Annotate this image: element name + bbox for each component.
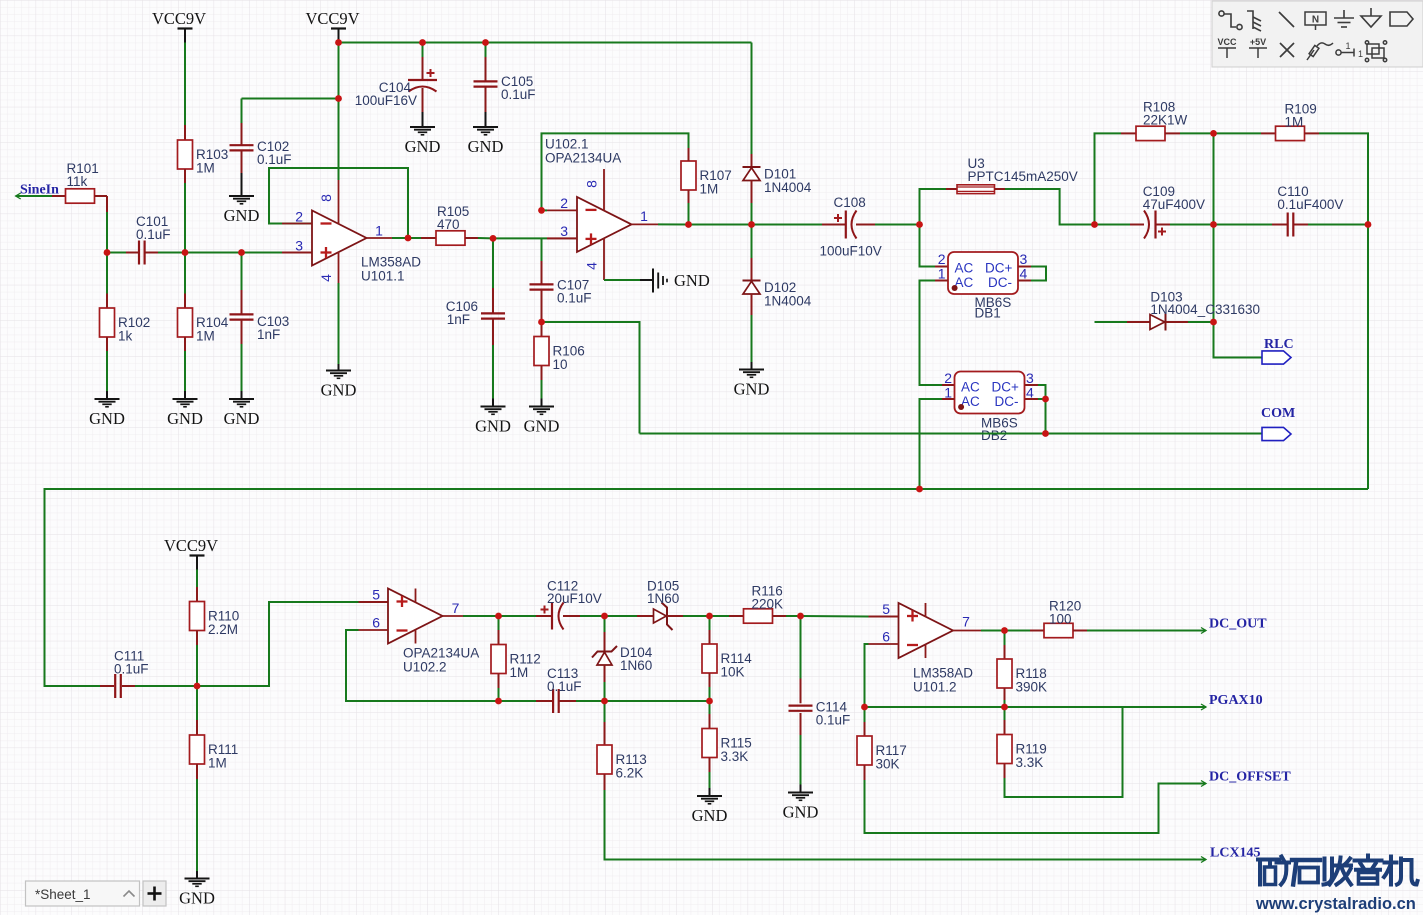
wire bbox=[1188, 321, 1214, 323]
capacitor C107 bbox=[530, 284, 554, 289]
label C113 bbox=[547, 666, 582, 694]
svg-text:6.2K: 6.2K bbox=[616, 766, 644, 781]
svg-text:C108: C108 bbox=[834, 195, 866, 210]
svg-text:U101.2: U101.2 bbox=[913, 680, 957, 695]
wire bbox=[158, 252, 185, 254]
svg-text:PGAX10: PGAX10 bbox=[1209, 693, 1263, 708]
wire bbox=[241, 173, 243, 196]
resistor R115 bbox=[702, 729, 752, 765]
wire bbox=[709, 758, 711, 773]
wire bbox=[100, 685, 114, 687]
svg-text:GND: GND bbox=[475, 417, 511, 436]
svg-text:47uF400V: 47uF400V bbox=[1143, 197, 1205, 212]
toolbar icon pin bbox=[1336, 49, 1354, 57]
wire bbox=[801, 615, 869, 618]
wire bbox=[1180, 132, 1214, 134]
junction bbox=[1365, 221, 1372, 228]
junction bbox=[706, 698, 713, 705]
svg-text:www.crystalradio.cn: www.crystalradio.cn bbox=[1255, 895, 1416, 913]
svg-text:1nF: 1nF bbox=[447, 312, 470, 327]
svg-text:U101.1: U101.1 bbox=[361, 269, 405, 284]
svg-text:DB2: DB2 bbox=[981, 428, 1007, 443]
capacitor C112 bbox=[541, 579, 602, 630]
wire bbox=[942, 398, 955, 400]
svg-text:1N4004: 1N4004 bbox=[764, 294, 812, 309]
wire bbox=[856, 224, 875, 226]
wire bbox=[359, 601, 389, 603]
wire bbox=[1130, 224, 1144, 226]
wire bbox=[536, 700, 553, 702]
svg-text:3.3K: 3.3K bbox=[721, 749, 749, 764]
svg-text:100: 100 bbox=[1049, 611, 1072, 626]
wire bbox=[751, 294, 753, 315]
svg-text:VCC: VCC bbox=[1217, 37, 1237, 47]
wire bbox=[338, 43, 340, 181]
svg-text:GND: GND bbox=[224, 206, 260, 225]
wire bbox=[1272, 224, 1287, 226]
wire bbox=[1038, 398, 1046, 400]
svg-text:GND: GND bbox=[524, 417, 560, 436]
resistor R116 bbox=[744, 584, 784, 624]
svg-text:GND: GND bbox=[734, 380, 770, 399]
wire bbox=[946, 188, 957, 190]
svg-text:PPTC145mA250V: PPTC145mA250V bbox=[968, 169, 1078, 184]
wire bbox=[920, 399, 943, 489]
svg-text:1N60: 1N60 bbox=[620, 658, 652, 673]
wire bbox=[1305, 132, 1320, 134]
resistor R120 bbox=[1044, 599, 1081, 638]
svg-text:1: 1 bbox=[1358, 49, 1363, 59]
junction bbox=[1001, 627, 1008, 634]
wire bbox=[106, 391, 108, 399]
wire bbox=[1214, 132, 1262, 134]
wire bbox=[604, 701, 606, 722]
wire bbox=[751, 43, 753, 155]
wire bbox=[1213, 133, 1215, 224]
wire bbox=[241, 253, 243, 291]
wire bbox=[800, 713, 802, 735]
wire bbox=[465, 237, 478, 239]
ground bbox=[167, 399, 203, 428]
op-amp U102.1 bbox=[545, 137, 658, 281]
svg-text:20uF10V: 20uF10V bbox=[547, 591, 602, 606]
svg-text:100uF16V: 100uF16V bbox=[355, 93, 417, 108]
junction bbox=[182, 249, 189, 256]
svg-text:0.1uF: 0.1uF bbox=[557, 290, 592, 305]
wire bbox=[563, 615, 580, 617]
svg-text:GND: GND bbox=[405, 137, 441, 156]
svg-text:DC+: DC+ bbox=[985, 261, 1012, 276]
junction bbox=[104, 249, 111, 256]
label C107 bbox=[557, 278, 592, 306]
wire bbox=[751, 362, 753, 370]
svg-text:4: 4 bbox=[318, 274, 334, 282]
resistor R104 bbox=[178, 308, 229, 344]
wire bbox=[242, 252, 283, 254]
svg-text:30K: 30K bbox=[876, 757, 900, 772]
svg-text:AC: AC bbox=[955, 261, 974, 276]
svg-text:6: 6 bbox=[372, 615, 380, 631]
wire bbox=[688, 190, 690, 203]
wire bbox=[463, 615, 499, 617]
power VCC9V bbox=[152, 9, 206, 43]
wire bbox=[196, 587, 198, 602]
capacitor C109 bbox=[1143, 184, 1205, 239]
wire bbox=[800, 735, 802, 785]
svg-text:0.1uF: 0.1uF bbox=[136, 227, 171, 242]
wire bbox=[542, 322, 640, 434]
ground bbox=[179, 879, 215, 908]
wire bbox=[1004, 631, 1006, 646]
resistor R101 bbox=[66, 161, 99, 203]
junction bbox=[797, 613, 804, 620]
junction bbox=[238, 249, 245, 256]
svg-text:GND: GND bbox=[321, 381, 357, 400]
ground bbox=[734, 370, 770, 399]
wire bbox=[485, 57, 487, 81]
power VCC9V bbox=[164, 536, 218, 570]
wire bbox=[1025, 398, 1038, 400]
wire bbox=[1213, 225, 1215, 323]
svg-text:11k: 11k bbox=[67, 174, 88, 189]
wire bbox=[710, 615, 730, 617]
svg-text:VCC9V: VCC9V bbox=[164, 536, 218, 555]
junction bbox=[335, 95, 342, 102]
wire bbox=[1294, 224, 1308, 226]
junction bbox=[1091, 221, 1098, 228]
svg-text:GND: GND bbox=[89, 409, 125, 428]
toolbar icon no-erc bbox=[1280, 43, 1294, 57]
label C105 bbox=[501, 74, 536, 102]
wire: COM net bbox=[640, 433, 1263, 435]
wire bbox=[751, 315, 753, 362]
wire bbox=[16, 195, 52, 197]
net label DC_OFFSET bbox=[1209, 770, 1291, 785]
wire bbox=[338, 364, 340, 371]
label C102 bbox=[257, 139, 292, 167]
svg-text:OPA2134UA: OPA2134UA bbox=[403, 646, 479, 661]
junction bbox=[495, 698, 502, 705]
wire bbox=[185, 252, 242, 254]
svg-text:3.3K: 3.3K bbox=[1016, 755, 1044, 770]
capacitor C101 bbox=[139, 241, 145, 265]
junction bbox=[482, 39, 489, 46]
wire: feedback U101.1 bbox=[269, 168, 408, 238]
junction bbox=[1210, 221, 1217, 228]
wire bbox=[751, 203, 753, 225]
wire bbox=[751, 258, 753, 281]
junction bbox=[861, 704, 868, 711]
wire bbox=[1170, 224, 1214, 226]
resistor R106 bbox=[534, 337, 585, 373]
wire bbox=[1261, 132, 1276, 134]
junction bbox=[685, 221, 692, 228]
wire bbox=[709, 673, 711, 687]
wire bbox=[752, 224, 823, 226]
resistor R113 bbox=[597, 745, 647, 781]
svg-text:1: 1 bbox=[375, 223, 383, 239]
junction bbox=[601, 698, 608, 705]
wire bbox=[492, 399, 494, 407]
junction bbox=[419, 39, 426, 46]
resistor R114 bbox=[702, 644, 752, 680]
svg-text:LM358AD: LM358AD bbox=[913, 666, 973, 681]
ground bbox=[475, 407, 511, 436]
wire bbox=[709, 788, 711, 796]
wire bbox=[822, 224, 845, 226]
wire bbox=[498, 674, 500, 689]
wire bbox=[729, 615, 744, 617]
wire bbox=[709, 687, 711, 701]
wire bbox=[52, 195, 66, 197]
wire bbox=[559, 700, 576, 702]
svg-text:470: 470 bbox=[437, 217, 460, 232]
svg-text:VCC9V: VCC9V bbox=[305, 9, 359, 28]
wire bbox=[421, 237, 436, 239]
ground bbox=[783, 793, 819, 822]
net label SineIn bbox=[20, 183, 59, 198]
wire bbox=[422, 43, 424, 58]
ground bbox=[524, 407, 560, 436]
svg-text:1M: 1M bbox=[208, 756, 227, 771]
wire bbox=[184, 294, 186, 309]
wire bbox=[492, 345, 494, 399]
wire bbox=[935, 266, 948, 268]
net label COM bbox=[1261, 406, 1295, 441]
junction bbox=[1042, 430, 1049, 437]
wire bbox=[95, 195, 108, 197]
svg-text:GND: GND bbox=[179, 889, 215, 908]
toolbar icon group bbox=[1365, 41, 1386, 62]
svg-text:0.1uF: 0.1uF bbox=[114, 661, 149, 676]
svg-text:1N60: 1N60 bbox=[647, 591, 679, 606]
svg-text:4: 4 bbox=[584, 262, 600, 270]
wire bbox=[920, 281, 943, 386]
wire bbox=[478, 237, 493, 239]
wire bbox=[241, 123, 243, 145]
wire bbox=[935, 280, 948, 282]
wire bbox=[1367, 225, 1369, 490]
wire bbox=[242, 98, 339, 100]
svg-text:5: 5 bbox=[372, 587, 380, 603]
wire bbox=[864, 722, 866, 736]
capacitor C104 bbox=[355, 69, 437, 108]
wire bbox=[864, 707, 866, 722]
svg-text:U102.2: U102.2 bbox=[403, 660, 447, 675]
wire bbox=[981, 630, 1005, 632]
wire bbox=[106, 196, 108, 212]
wire bbox=[196, 779, 198, 871]
wire bbox=[709, 772, 711, 788]
wire bbox=[498, 688, 500, 701]
wire bbox=[1038, 385, 1046, 399]
diode D104 bbox=[592, 645, 653, 673]
wire bbox=[106, 212, 108, 253]
svg-text:GND: GND bbox=[783, 803, 819, 822]
wire bbox=[1005, 630, 1031, 632]
diode D102 bbox=[743, 280, 812, 309]
wire bbox=[689, 224, 752, 226]
wire bbox=[920, 225, 936, 267]
wire bbox=[1308, 224, 1368, 226]
wire bbox=[241, 320, 243, 344]
label C101 bbox=[136, 214, 171, 242]
wire bbox=[688, 203, 690, 225]
toolbar icon +5v bbox=[1249, 48, 1267, 58]
junction bbox=[748, 221, 755, 228]
wire bbox=[536, 615, 552, 617]
junction bbox=[405, 235, 412, 242]
svg-text:RLC: RLC bbox=[1264, 337, 1294, 352]
wire bbox=[408, 237, 421, 239]
svg-text:1M: 1M bbox=[700, 182, 719, 197]
svg-text:7: 7 bbox=[962, 614, 970, 630]
svg-text:7: 7 bbox=[452, 600, 460, 616]
ground bbox=[405, 127, 441, 156]
wire bbox=[1045, 399, 1047, 434]
wire bbox=[498, 616, 500, 630]
resistor R102 bbox=[100, 308, 151, 344]
svg-text:1N4004_C331630: 1N4004_C331630 bbox=[1150, 302, 1260, 317]
svg-text:GND: GND bbox=[167, 409, 203, 428]
wire bbox=[126, 252, 139, 254]
junction bbox=[1042, 396, 1049, 403]
svg-text:DC+: DC+ bbox=[992, 380, 1019, 395]
toolbar icon ground bbox=[1334, 10, 1354, 27]
svg-text:*Sheet_1: *Sheet_1 bbox=[35, 887, 91, 902]
svg-text:GND: GND bbox=[674, 271, 710, 290]
wire bbox=[241, 151, 243, 173]
resistor R109 bbox=[1276, 102, 1317, 141]
resistor R107 bbox=[681, 161, 732, 197]
toolbar icon bus bbox=[1247, 11, 1261, 31]
wire bbox=[1127, 321, 1150, 323]
svg-text:DC-: DC- bbox=[995, 394, 1019, 409]
junction bbox=[1210, 130, 1217, 137]
junction bbox=[916, 221, 923, 228]
wire bbox=[1005, 707, 1123, 797]
wire: VCC rail bbox=[339, 42, 752, 44]
svg-text:0.1uF400V: 0.1uF400V bbox=[1277, 197, 1343, 212]
junction bbox=[601, 613, 608, 620]
wire bbox=[184, 183, 186, 253]
net label DC_OUT bbox=[1209, 617, 1267, 632]
resistor R117 bbox=[857, 736, 907, 772]
wire bbox=[541, 261, 543, 284]
svg-text:LM358AD: LM358AD bbox=[361, 255, 421, 270]
wire bbox=[107, 252, 126, 254]
wire bbox=[499, 615, 537, 617]
wire bbox=[196, 871, 198, 879]
svg-text:2.2M: 2.2M bbox=[208, 622, 238, 637]
wire bbox=[184, 253, 186, 294]
svg-text:220K: 220K bbox=[752, 596, 784, 611]
wire bbox=[1121, 132, 1136, 134]
ground bbox=[468, 127, 504, 156]
wire bbox=[184, 125, 186, 140]
junction bbox=[916, 486, 923, 493]
junction bbox=[538, 319, 545, 326]
svg-text:1nF: 1nF bbox=[257, 327, 280, 342]
wire bbox=[773, 615, 787, 617]
wire bbox=[106, 351, 108, 391]
svg-text:GND: GND bbox=[468, 137, 504, 156]
wire: pin4 to sideways gnd bbox=[604, 279, 640, 281]
wire bbox=[485, 43, 487, 58]
toolbar icon line bbox=[1279, 12, 1294, 27]
toolbar icon vcc bbox=[1218, 48, 1236, 58]
resistor R105 bbox=[436, 204, 469, 245]
svg-text:8: 8 bbox=[318, 194, 334, 202]
wire bbox=[1025, 384, 1038, 386]
wire bbox=[1030, 630, 1044, 632]
wire bbox=[800, 785, 802, 793]
wire bbox=[604, 665, 606, 682]
net label PGAX10 bbox=[1209, 693, 1263, 708]
svg-text:1: 1 bbox=[640, 208, 648, 224]
wire bbox=[197, 602, 359, 686]
svg-text:DB1: DB1 bbox=[975, 306, 1001, 321]
ground bbox=[89, 399, 125, 428]
svg-text:390K: 390K bbox=[1016, 680, 1048, 695]
sheet tab bbox=[26, 881, 140, 906]
svg-text:4: 4 bbox=[1020, 266, 1028, 282]
capacitor C103 bbox=[230, 314, 254, 319]
power VCC9V bbox=[305, 9, 359, 43]
junction bbox=[335, 39, 342, 46]
ground bbox=[224, 399, 260, 428]
wire bbox=[864, 765, 866, 780]
svg-text:3: 3 bbox=[560, 223, 568, 239]
wire bbox=[942, 384, 955, 386]
junction bbox=[495, 613, 502, 620]
capacitor C108 bbox=[820, 195, 882, 259]
resistor R110 bbox=[190, 602, 240, 638]
wire bbox=[184, 43, 186, 126]
resistor R119 bbox=[997, 735, 1047, 771]
wire bbox=[1004, 764, 1006, 779]
capacitor C105 bbox=[474, 81, 498, 86]
wire bbox=[541, 290, 543, 322]
svg-text:8: 8 bbox=[584, 180, 600, 188]
svg-text:6: 6 bbox=[882, 629, 890, 645]
resistor R118 bbox=[997, 659, 1047, 695]
label C106 bbox=[446, 299, 478, 327]
wire bbox=[422, 57, 424, 80]
wire bbox=[184, 169, 186, 183]
wire: PGAX10 net bbox=[1005, 706, 1207, 708]
bridge rectifier DB1 bbox=[948, 252, 1018, 321]
svg-text:2: 2 bbox=[560, 195, 568, 211]
svg-text:10: 10 bbox=[553, 357, 568, 372]
wire bbox=[605, 615, 638, 617]
wire bbox=[547, 237, 577, 239]
wire bbox=[184, 351, 186, 391]
toolbar icon netlabel bbox=[1305, 12, 1326, 30]
wire bbox=[499, 700, 537, 702]
wire bbox=[604, 632, 606, 652]
wire bbox=[658, 223, 689, 225]
wire bbox=[485, 112, 487, 127]
wire bbox=[196, 686, 198, 720]
wire bbox=[920, 189, 947, 225]
op-amp U102.2 bbox=[359, 589, 480, 675]
wire bbox=[751, 154, 753, 167]
wire bbox=[392, 237, 408, 239]
wire bbox=[1018, 266, 1031, 268]
wire bbox=[1165, 132, 1180, 134]
net label LCX145 bbox=[1210, 846, 1261, 861]
